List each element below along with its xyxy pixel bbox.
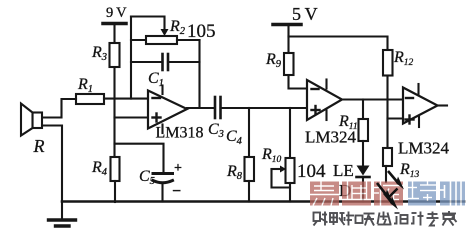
char yi [310,182,339,206]
svg-text:C5: C5 [139,168,155,187]
wire op2 output [342,98,403,100]
svg-text:LM318: LM318 [156,125,204,142]
svg-text:R10: R10 [261,146,282,165]
zhuan [428,213,438,215]
svg-text:5 V: 5 V [292,4,318,24]
wire noninverting input [115,116,149,118]
watermark line 1 [310,182,465,206]
resistor R8 [248,108,250,157]
watermark line 2 [314,211,457,226]
char tuo [374,182,403,206]
wire top to R2 wiper [131,17,165,32]
wire feedback left vertical [130,17,132,99]
resistor R9 [284,53,294,75]
capacitor C3 [214,97,217,118]
svg-text:LE: LE [333,161,354,180]
resistor R3 [110,43,120,67]
she [314,213,321,222]
wire R12 to R13 [386,76,388,149]
svg-text:C3: C3 [208,121,224,140]
wire R9 to op2 minus [289,75,308,89]
svg-text:LM324: LM324 [305,128,357,147]
wire op3 output [438,104,448,106]
LED2 emission arrows cluster [377,171,404,210]
wire speaker bottom to ground [43,126,63,202]
op-amp U3 LM324 [403,88,438,124]
wire R4 to ground bus [114,181,116,202]
svg-text:R9: R9 [265,51,282,70]
svg-text:LM324: LM324 [398,139,450,158]
ground [61,202,63,220]
wire op3 plus input [388,117,404,119]
op-amp U1 LM318 [148,91,187,129]
svg-text:104: 104 [297,161,326,182]
svg-text:R13: R13 [399,161,420,180]
svg-text:R: R [33,136,45,156]
char xun [440,182,465,206]
resistor R12 [383,50,393,76]
LED D [357,166,370,176]
svg-text:R4: R4 [91,159,108,178]
svg-text:+: + [174,161,182,176]
capacitor C5 [153,172,173,175]
wire 9V stem [113,25,115,43]
capacitor C1 [131,61,163,63]
speaker R [33,113,43,129]
wire R13 down [385,166,387,182]
svg-text:9 V: 9 V [106,5,127,21]
resistor R1 [76,94,104,104]
pin [330,213,337,222]
wire C5 branch [115,144,164,173]
svg-text:C1: C1 [148,70,164,89]
9V power rail bar [103,22,126,26]
xian [378,213,380,225]
potentiometer R2 [161,29,169,36]
wire signal to stage 2 [221,107,307,109]
char di [342,182,371,206]
resistor R4 [111,157,120,181]
char pei [408,182,436,206]
wire inverting input [104,98,148,100]
svg-text:R8: R8 [226,163,243,182]
svg-text:−: − [172,183,181,200]
svg-text:R12: R12 [393,49,414,68]
she2 [395,212,400,214]
resistor R13 [383,148,392,166]
svg-text:R2: R2 [169,18,186,37]
tian [364,213,375,215]
ground bus [62,200,464,203]
svg-text:105: 105 [187,21,216,42]
wire op1 output [187,107,214,109]
jia [442,213,456,215]
wire 5V branch to R12 [289,37,388,51]
svg-text:C4: C4 [226,128,243,147]
op-amp U2 LM324 [307,80,342,120]
5V power rail bar [273,23,301,27]
wire feedback right vertical [198,40,200,108]
potentiometer R10 [289,108,291,158]
resistor R11 [362,100,364,120]
svg-text:R1: R1 [77,76,93,95]
ji [412,212,417,214]
wire left rail [113,67,115,157]
wire R1 left lead [43,99,77,118]
he [348,212,350,226]
svg-text:R3: R3 [91,44,107,63]
